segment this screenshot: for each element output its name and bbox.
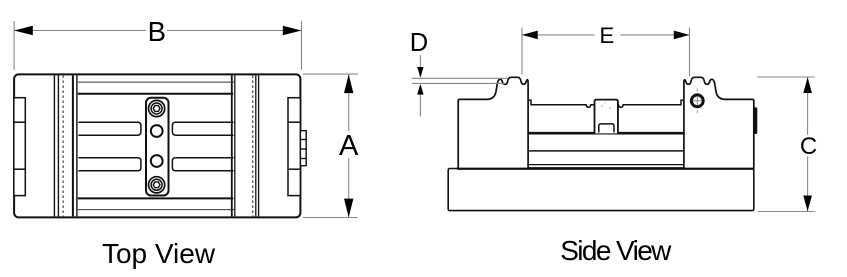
side view: carriage bottom line bbox=[529, 164, 684, 166]
side view: nut block inner tab bbox=[599, 124, 614, 133]
dimension A extension lines bbox=[303, 74, 358, 217]
dimension D lower leader line bbox=[419, 95, 421, 117]
svg-text:C: C bbox=[800, 133, 817, 160]
side view: way top line with nut notches bbox=[528, 100, 684, 107]
dimension D extension lines bbox=[412, 78, 508, 83]
side view: jaw screw center marks bbox=[696, 89, 698, 114]
side view: jaw screw (circle with cross) bbox=[691, 95, 703, 107]
top view: top socket head cap screw bbox=[149, 100, 165, 116]
svg-text:Side View: Side View bbox=[560, 235, 672, 266]
dimension B line bbox=[14, 30, 301, 32]
svg-text:A: A bbox=[339, 130, 359, 162]
dimension B right arrowhead bbox=[283, 26, 302, 35]
top view: upper plain hole bbox=[151, 125, 163, 137]
svg-text:B: B bbox=[148, 16, 166, 47]
dimension C top arrowhead bbox=[803, 77, 812, 93]
top view: right jaw plate lines bbox=[232, 75, 259, 216]
top view: upper guide slot right bbox=[172, 122, 233, 135]
top view: upper guide slot left bbox=[78, 122, 140, 135]
dimension A bottom arrowhead bbox=[344, 199, 353, 218]
side view: nut block bbox=[595, 100, 618, 134]
top view caption bbox=[102, 238, 216, 269]
dimension B extension lines bbox=[14, 21, 301, 70]
dimension A label bbox=[339, 130, 359, 162]
svg-text:D: D bbox=[410, 29, 428, 57]
side view: nut block hatch ticks bbox=[602, 103, 612, 110]
top view: center clamp plate bbox=[146, 98, 169, 196]
dimension D lower arrowhead (up) bbox=[417, 84, 423, 95]
dimension E line bbox=[522, 34, 690, 36]
dimension A top arrowhead bbox=[344, 74, 353, 93]
top view: right end rail ladder bbox=[288, 98, 300, 196]
dimension B left arrowhead bbox=[14, 26, 33, 35]
top view: bottom socket head cap screw bbox=[149, 177, 165, 193]
top view: screw end block on right edge bbox=[300, 131, 306, 166]
svg-text:Top View: Top View bbox=[102, 238, 216, 269]
dimension C label bbox=[800, 133, 817, 160]
dimension C line bbox=[807, 77, 809, 211]
dimension E right arrowhead bbox=[674, 31, 690, 40]
side view: lead screw line (thick) bbox=[529, 132, 684, 135]
side view: base bbox=[448, 169, 754, 211]
top view: lower guide slot right bbox=[172, 158, 233, 171]
dimension D upper arrowhead (down) bbox=[417, 67, 423, 78]
dimension D upper leader line bbox=[419, 55, 421, 67]
dimension D label bbox=[410, 29, 428, 57]
top view: left end rail ladder bbox=[14, 98, 25, 196]
dimension E extension lines bbox=[522, 28, 690, 77]
side view: carriage mid line bbox=[529, 150, 684, 152]
dimension C bottom arrowhead bbox=[803, 196, 812, 212]
dimension B label bbox=[148, 16, 166, 47]
top view: vise body outline bbox=[14, 74, 300, 217]
top view: lower plain hole bbox=[151, 155, 163, 167]
dimension A line bbox=[348, 74, 350, 217]
side view: screw hub (black) bbox=[754, 107, 758, 134]
side view: movable jaw (left) bbox=[458, 77, 528, 168]
side view: fixed jaw (right) bbox=[684, 77, 754, 168]
top view: left jaw plate lines bbox=[54, 75, 77, 216]
dimension E left arrowhead bbox=[522, 31, 538, 40]
top view: bed horizontal edge lines bbox=[78, 82, 234, 210]
dimension C extension lines bbox=[757, 77, 815, 212]
dimension E label bbox=[600, 23, 615, 48]
side view caption bbox=[560, 235, 672, 266]
svg-text:E: E bbox=[600, 23, 615, 48]
top view: lower guide slot left bbox=[78, 158, 140, 171]
